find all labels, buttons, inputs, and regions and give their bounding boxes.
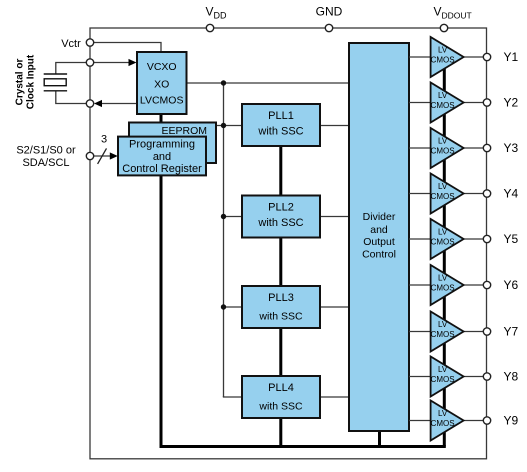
svg-text:VCXO: VCXO	[147, 61, 177, 73]
thick bottom rail	[160, 445, 446, 448]
svg-text:LV: LV	[438, 365, 448, 374]
svg-text:CMOS: CMOS	[431, 192, 455, 201]
svg-text:LV: LV	[438, 274, 448, 283]
svg-text:with SSC: with SSC	[258, 401, 303, 413]
wire VCXO out to XTAL out terminal	[100, 103, 137, 105]
svg-text:CMOS: CMOS	[431, 147, 455, 156]
block EEPROM	[129, 123, 216, 164]
block Programming and Control Register	[118, 137, 206, 176]
crystal X1 bottom plate	[44, 90, 67, 92]
crystal bottom wire	[56, 91, 87, 104]
crystal top wire	[56, 63, 87, 75]
block PLL2 with SSC	[242, 196, 320, 238]
block PLL1 with SSC	[242, 104, 320, 146]
buffer U7 LVCMOS Y7	[431, 312, 464, 352]
pad GND	[325, 24, 332, 31]
svg-text:PLL4: PLL4	[268, 382, 294, 394]
svg-text:CMOS: CMOS	[431, 330, 455, 339]
svg-text:XO: XO	[154, 78, 169, 90]
svg-text:EEPROM: EEPROM	[161, 125, 207, 137]
junction clock trunk	[221, 80, 226, 85]
buffer U5 LVCMOS Y5	[431, 219, 464, 259]
wire divider to buffer Y3	[409, 147, 431, 149]
thick bus VCXO to EEPROM and register to ground rail	[160, 113, 163, 447]
svg-text:Clock Input: Clock Input	[25, 54, 36, 109]
buffer U6 LVCMOS Y6	[431, 265, 464, 305]
bus slash	[98, 148, 107, 164]
svg-text:with SSC: with SSC	[257, 217, 303, 229]
pad Y7	[483, 328, 490, 335]
svg-text:Vctr: Vctr	[61, 38, 81, 50]
svg-text:PLL1: PLL1	[268, 110, 294, 122]
svg-text:Programming: Programming	[129, 138, 195, 150]
svg-text:Y6: Y6	[504, 278, 519, 292]
wire divider to buffer Y4	[409, 193, 431, 195]
wire buffer Y6 to pad	[464, 284, 484, 286]
wire PLL2 to divider	[320, 216, 349, 218]
pad VDDOUT	[440, 24, 447, 31]
svg-text:CMOS: CMOS	[431, 101, 455, 110]
svg-text:CMOS: CMOS	[431, 419, 455, 428]
block PLL3 with SSC	[242, 286, 320, 328]
wire divider to buffer Y9	[409, 420, 431, 422]
pad Y3	[483, 144, 490, 151]
svg-text:LVCMOS: LVCMOS	[140, 94, 184, 106]
svg-text:LV: LV	[438, 91, 448, 100]
svg-text:Y3: Y3	[504, 141, 519, 155]
wire VCXO clock to divider	[187, 82, 350, 84]
pad XTAL out	[86, 100, 93, 107]
wire PLL4 to divider	[320, 396, 349, 398]
pad Y5	[483, 235, 490, 242]
thick VDDOUT feed behind buffers	[443, 48, 446, 447]
junction PLL2 tap	[221, 214, 226, 219]
wire buffer Y5 to pad	[464, 238, 484, 240]
wire Vctr to VCXO top	[90, 43, 161, 53]
block Divider and Output Control	[349, 43, 409, 431]
buffer U2 LVCMOS Y2	[431, 83, 464, 123]
svg-text:Output: Output	[363, 236, 395, 248]
thick PLL chain trunk	[279, 145, 282, 447]
arrowhead into register	[110, 152, 118, 159]
svg-text:PLL2: PLL2	[268, 202, 294, 214]
svg-text:Y2: Y2	[504, 96, 519, 110]
svg-text:Y7: Y7	[504, 325, 519, 339]
wire S2/S1/S0 bus into Programming register	[90, 155, 110, 157]
wire trunk to PLL4	[224, 396, 243, 397]
divider to buffer wires	[409, 57, 483, 421]
pad Y8	[483, 373, 490, 380]
wire divider to buffer Y1	[409, 56, 431, 58]
buffer U9 LVCMOS Y9	[431, 401, 464, 441]
wire divider to buffer Y5	[409, 238, 431, 240]
pad Y1	[483, 53, 490, 60]
svg-text:Crystal or: Crystal or	[14, 59, 25, 106]
wire buffer Y2 to pad	[464, 102, 484, 104]
crystal X1 top plate	[44, 73, 67, 75]
svg-text:SDA/SCL: SDA/SCL	[22, 157, 69, 169]
buffer U8 LVCMOS Y8	[431, 357, 464, 397]
wire trunk to PLL3	[224, 306, 243, 308]
wire buffer Y4 to pad	[464, 193, 484, 195]
pad Y6	[483, 281, 490, 288]
svg-text:CMOS: CMOS	[431, 284, 455, 293]
svg-text:LV: LV	[438, 137, 448, 146]
crystal X1 body	[44, 79, 66, 86]
wire divider to buffer Y2	[409, 102, 431, 104]
clock distribution trunk	[223, 83, 225, 397]
label Crystal or Clock Input	[14, 54, 36, 109]
junction PLL3 tap	[221, 304, 226, 309]
buffer U4 LVCMOS Y4	[431, 174, 464, 214]
wire PLL1 to divider	[320, 125, 349, 127]
pad Y2	[483, 99, 490, 106]
wire trunk to PLL1	[215, 125, 242, 127]
svg-text:Y4: Y4	[504, 187, 519, 201]
wire trunk to PLL2	[224, 216, 243, 218]
block PLL4 with SSC	[242, 376, 320, 418]
svg-text:Control: Control	[362, 249, 396, 261]
svg-text:with SSC: with SSC	[258, 311, 303, 323]
wire buffer Y8 to pad	[464, 376, 484, 378]
arrowhead toward terminal	[94, 100, 102, 107]
pad VDD	[206, 24, 213, 31]
wire divider to buffer Y6	[409, 284, 431, 286]
svg-text:Y1: Y1	[504, 50, 519, 64]
svg-text:Control Register: Control Register	[122, 163, 202, 175]
pad Y4	[483, 190, 490, 197]
svg-text:and: and	[153, 151, 171, 163]
wire buffer Y7 to pad	[464, 331, 484, 333]
svg-text:CMOS: CMOS	[431, 375, 455, 384]
pad Y9	[483, 417, 490, 424]
chip boundary border	[90, 28, 487, 459]
svg-text:LV: LV	[438, 46, 448, 55]
wire XTAL input to VCXO	[90, 62, 129, 64]
thick divider ground stub	[378, 430, 381, 447]
wire divider to buffer Y8	[409, 376, 431, 378]
svg-text:LV: LV	[438, 182, 448, 191]
pad XTAL in	[86, 59, 93, 66]
junction PLL1 tap	[221, 123, 226, 128]
buffer U3 LVCMOS Y3	[431, 128, 464, 168]
svg-text:GND: GND	[316, 5, 343, 19]
pad Vctr	[86, 39, 93, 46]
svg-text:Y5: Y5	[504, 232, 519, 246]
svg-text:Y8: Y8	[504, 370, 519, 384]
pad S2/S1/S0	[86, 152, 93, 159]
block VCXO XO LVCMOS	[137, 52, 187, 114]
svg-text:CMOS: CMOS	[431, 56, 455, 65]
wire divider to buffer Y7	[409, 331, 431, 333]
wire buffer Y3 to pad	[464, 147, 484, 149]
svg-text:and: and	[370, 224, 388, 236]
svg-text:with SSC: with SSC	[257, 125, 303, 137]
svg-text:LV: LV	[438, 320, 448, 329]
svg-text:S2/S1/S0 or: S2/S1/S0 or	[16, 144, 76, 156]
wire buffer Y1 to pad	[464, 56, 484, 58]
svg-text:Y9: Y9	[504, 414, 519, 428]
svg-text:PLL3: PLL3	[268, 292, 294, 304]
wire buffer Y9 to pad	[464, 420, 484, 422]
svg-text:LV: LV	[438, 409, 448, 418]
svg-text:3: 3	[101, 134, 107, 146]
wire PLL3 to divider	[320, 306, 349, 308]
svg-text:CMOS: CMOS	[431, 238, 455, 247]
buffer U1 LVCMOS Y1	[431, 37, 464, 77]
arrowhead into VCXO	[129, 59, 137, 66]
svg-text:LV: LV	[438, 228, 448, 237]
svg-text:Divider: Divider	[363, 211, 396, 223]
